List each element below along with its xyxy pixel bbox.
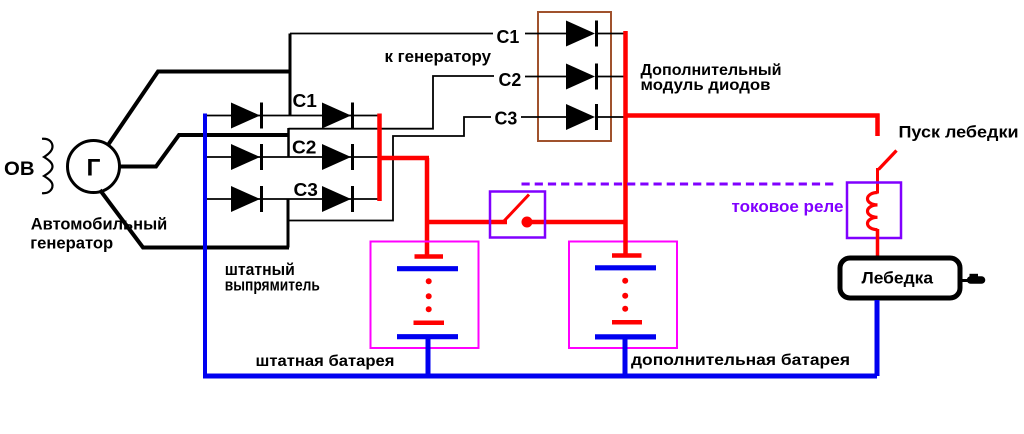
generator G1 circle	[68, 141, 120, 193]
battery 2 box	[569, 242, 677, 349]
module diode VD7	[566, 21, 597, 47]
diode VD4	[322, 144, 353, 170]
red module output vertical	[623, 31, 628, 254]
wire rectifier row C1	[205, 115, 379, 117]
blue negative bus	[203, 374, 877, 379]
svg-text:штатная батарея: штатная батарея	[256, 353, 395, 370]
relay contact box K1.1	[490, 192, 545, 238]
battery1 plus plate	[415, 254, 444, 259]
svg-text:C1: C1	[293, 90, 317, 111]
relay contact dot	[522, 217, 533, 228]
red wire to winch switch	[624, 113, 880, 118]
node phase2 vertical	[287, 128, 290, 158]
battery2 dots	[622, 278, 628, 312]
svg-text:токовое реле: токовое реле	[732, 198, 844, 216]
wire phase 3 (thick)	[100, 190, 289, 248]
diode VD6	[322, 186, 353, 212]
field winding ОВ symbol	[42, 139, 53, 194]
battery1 plus plate 2	[414, 321, 445, 326]
svg-text:Г: Г	[87, 154, 101, 181]
red wire into contact	[425, 220, 507, 225]
svg-text:Лебедка: Лебедка	[862, 268, 934, 287]
switch to coil stub	[876, 168, 879, 194]
wire C2 tap	[289, 76, 495, 129]
wire phase 1 (thick)	[108, 72, 291, 146]
node phase1 vertical	[289, 34, 292, 116]
battery 1 box	[371, 242, 479, 349]
winch switch blade	[879, 151, 897, 170]
winch shaft knob	[967, 276, 986, 284]
wire phase 2 (thick)	[120, 135, 289, 167]
red wire from contact to module bus	[531, 220, 627, 225]
red switch feed drop	[875, 114, 880, 137]
diode VD3	[231, 144, 262, 170]
node phase3 vertical	[287, 199, 290, 248]
svg-text:Пуск лебедки: Пуск лебедки	[899, 122, 1019, 141]
winch to bus blue wire	[875, 300, 880, 376]
diode VD1	[231, 103, 262, 129]
wire C3 tap	[288, 117, 491, 221]
battery1 minus wire	[426, 337, 431, 376]
svg-text:модуль диодов: модуль диодов	[641, 77, 771, 94]
battery1 dots	[426, 278, 432, 312]
red vertical to battery 1	[425, 158, 430, 255]
svg-text:C3: C3	[495, 107, 518, 128]
module row 3 wire	[521, 116, 566, 118]
svg-text:C3: C3	[294, 179, 318, 200]
diode VD5	[231, 186, 262, 212]
wire rectifier row C2	[205, 156, 379, 158]
dashed control link	[522, 183, 837, 186]
battery2 minus wire	[623, 337, 628, 376]
svg-text:C2: C2	[499, 69, 522, 90]
additional diode module box	[538, 12, 611, 141]
battery1 long plate 1	[397, 266, 458, 271]
coil to winch stub	[876, 229, 880, 257]
module row 2 wire	[525, 76, 566, 78]
svg-text:Автомобильный: Автомобильный	[31, 215, 168, 234]
svg-text:ОВ: ОВ	[4, 159, 35, 180]
battery2 plus plate	[612, 253, 642, 258]
battery2 long plate 2	[595, 334, 656, 339]
battery1 long plate 2	[397, 334, 458, 339]
svg-text:C1: C1	[497, 26, 520, 47]
blue negative vertical wire	[203, 114, 207, 377]
winch shaft	[961, 279, 970, 282]
module row 1 wire	[525, 33, 566, 35]
svg-text:к генератору: к генератору	[385, 48, 492, 66]
relay coil box K1	[847, 183, 901, 239]
wire to module C1	[290, 33, 493, 35]
module diode VD8	[566, 64, 597, 90]
svg-text:выпрямитель: выпрямитель	[225, 277, 320, 295]
relay contact blade	[504, 195, 529, 222]
battery2 long plate 1	[595, 265, 656, 270]
module diode VD9	[566, 104, 597, 130]
svg-text:генератор: генератор	[30, 233, 113, 252]
red rectifier plus vertical	[377, 114, 382, 202]
winch box	[840, 258, 960, 298]
battery2 plus plate 2	[612, 320, 642, 325]
svg-text:дополнительная батарея: дополнительная батарея	[631, 352, 850, 369]
svg-text:C2: C2	[292, 136, 316, 157]
wire rectifier row C3	[205, 198, 379, 200]
red wire to relay	[378, 156, 430, 161]
diode VD2	[322, 103, 353, 129]
relay coil winding	[868, 193, 878, 230]
